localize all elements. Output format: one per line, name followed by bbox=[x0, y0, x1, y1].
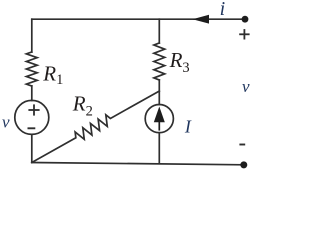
svg-text:I: I bbox=[184, 117, 192, 137]
wire middle lower bbox=[158, 133, 160, 164]
svg-text:i: i bbox=[220, 0, 226, 20]
minus sign inside voltage source bbox=[28, 127, 36, 129]
wire bottom bbox=[32, 163, 244, 165]
resistor R3 bbox=[154, 43, 165, 80]
wire middle between R3 and current source bbox=[158, 80, 160, 105]
svg-text:v: v bbox=[242, 77, 250, 96]
current source arrow bbox=[154, 107, 165, 131]
voltage source v circle bbox=[15, 100, 49, 134]
wire left middle bbox=[31, 86, 33, 101]
svg-text:R3: R3 bbox=[169, 48, 190, 76]
wire left upper bbox=[31, 19, 33, 52]
plus polarity mark right terminal bbox=[239, 29, 249, 39]
resistor R1 bbox=[26, 52, 37, 86]
plus sign inside voltage source bbox=[28, 104, 39, 115]
current source I circle bbox=[145, 105, 173, 133]
minus polarity mark right terminal bbox=[239, 144, 245, 146]
node terminal dot top right bbox=[242, 16, 249, 23]
arrowhead for current i on top wire bbox=[193, 15, 210, 24]
svg-text:v: v bbox=[2, 112, 10, 131]
resistor R2 on diagonal wire bbox=[29, 86, 162, 167]
node terminal dot bottom right bbox=[240, 161, 247, 168]
svg-text:R2: R2 bbox=[72, 92, 93, 120]
wire left lower bbox=[31, 134, 33, 162]
svg-text:R1: R1 bbox=[42, 61, 63, 88]
wire middle upper bbox=[158, 19, 160, 43]
wire top bbox=[32, 18, 245, 20]
